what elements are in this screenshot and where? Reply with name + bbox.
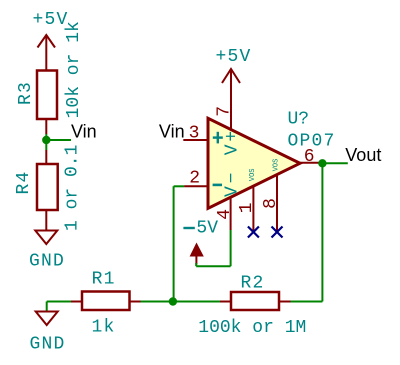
svg-text:VOS: VOS bbox=[249, 168, 257, 181]
power +5V (left) bbox=[32, 10, 68, 71]
resistor R3 bbox=[16, 21, 84, 134]
svg-text:1k: 1k bbox=[91, 318, 115, 338]
svg-text:R1: R1 bbox=[92, 270, 116, 290]
wire feedback Vout to R2 bbox=[291, 163, 323, 301]
pin 3 (+ input) bbox=[183, 124, 223, 144]
svg-text:3: 3 bbox=[189, 124, 200, 144]
resistor R1 bbox=[71, 270, 141, 338]
svg-text:Vout: Vout bbox=[345, 145, 381, 165]
svg-text:6: 6 bbox=[304, 147, 315, 167]
svg-text:V+: V+ bbox=[223, 128, 243, 155]
svg-text:1: 1 bbox=[237, 202, 257, 213]
svg-text:10k or 1k: 10k or 1k bbox=[64, 21, 84, 118]
svg-text:Vin: Vin bbox=[159, 122, 185, 142]
ground (under R4) bbox=[29, 231, 65, 272]
no-connect X pin 1 bbox=[248, 227, 259, 238]
svg-text:5V: 5V bbox=[196, 219, 218, 239]
pin 2 (- input) bbox=[184, 169, 222, 189]
resistor R4 bbox=[14, 145, 83, 231]
pin 8 (VOS) bbox=[261, 159, 281, 232]
svg-text:V−: V− bbox=[223, 170, 243, 197]
node Vin bbox=[42, 122, 97, 151]
pin 7 (V+) bbox=[215, 69, 243, 155]
junction bbox=[169, 297, 177, 305]
ground (bottom left) bbox=[29, 302, 65, 355]
svg-text:100k or 1M: 100k or 1M bbox=[198, 318, 306, 338]
resistor R2 bbox=[198, 274, 306, 339]
svg-text:7: 7 bbox=[215, 106, 235, 117]
svg-text:R4: R4 bbox=[14, 170, 34, 194]
power +5V (over op-amp) bbox=[215, 47, 251, 83]
svg-text:+5V: +5V bbox=[215, 47, 251, 67]
svg-text:1 or 0.1: 1 or 0.1 bbox=[63, 145, 83, 231]
no-connect X pin 8 bbox=[272, 227, 283, 238]
svg-text:GND: GND bbox=[29, 335, 65, 355]
power -5V bbox=[183, 219, 230, 267]
svg-text:U?: U? bbox=[288, 110, 310, 130]
pin 1 (VOS) bbox=[237, 168, 257, 231]
node Vout bbox=[318, 145, 381, 168]
svg-text:Vin: Vin bbox=[71, 122, 97, 142]
svg-text:GND: GND bbox=[29, 252, 65, 272]
svg-text:R3: R3 bbox=[16, 81, 36, 105]
wire GND to R1 bbox=[47, 301, 71, 303]
wire pin2 to junction bbox=[174, 186, 185, 301]
pin 6 (output) bbox=[300, 147, 319, 167]
svg-text:2: 2 bbox=[189, 169, 200, 189]
op-amp U1 OP07 bbox=[208, 110, 336, 209]
svg-text:R2: R2 bbox=[240, 274, 264, 294]
wire R1 to junction to R2 bbox=[141, 301, 221, 303]
pin 4 (V-) bbox=[215, 170, 243, 230]
svg-text:8: 8 bbox=[261, 198, 281, 209]
svg-text:VOS: VOS bbox=[273, 159, 281, 172]
